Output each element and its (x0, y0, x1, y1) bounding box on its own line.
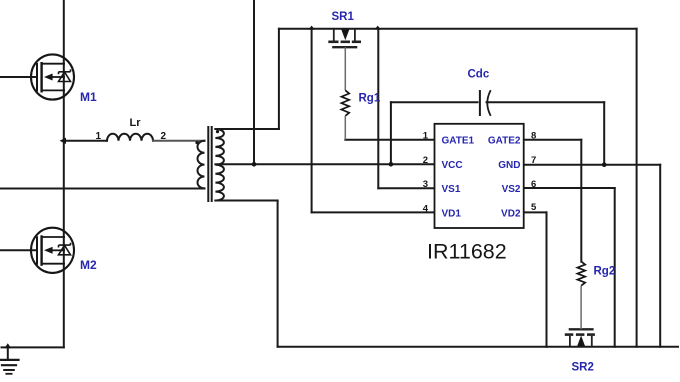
svg-text:GND: GND (498, 160, 520, 171)
svg-text:Lr: Lr (130, 117, 142, 129)
svg-text:Rg2: Rg2 (594, 266, 616, 278)
svg-text:8: 8 (531, 131, 536, 142)
svg-text:VS1: VS1 (442, 184, 461, 195)
svg-text:GATE2: GATE2 (488, 136, 521, 147)
svg-text:Rg1: Rg1 (359, 93, 381, 105)
svg-text:IR11682: IR11682 (427, 240, 507, 264)
svg-text:6: 6 (531, 179, 536, 190)
svg-text:VD1: VD1 (442, 208, 462, 219)
svg-text:1: 1 (423, 131, 429, 142)
svg-text:5: 5 (531, 202, 537, 213)
svg-text:VS2: VS2 (502, 184, 521, 195)
svg-text:M1: M1 (80, 90, 97, 104)
svg-text:2: 2 (161, 131, 167, 142)
svg-text:3: 3 (423, 179, 428, 190)
svg-text:M2: M2 (80, 258, 97, 272)
svg-text:VCC: VCC (442, 160, 463, 171)
svg-text:4: 4 (423, 203, 429, 214)
svg-text:2: 2 (423, 155, 428, 166)
svg-text:GATE1: GATE1 (442, 136, 475, 147)
svg-text:Cdc: Cdc (468, 69, 490, 81)
svg-text:7: 7 (531, 155, 536, 166)
svg-text:SR1: SR1 (332, 11, 355, 23)
svg-text:VD2: VD2 (501, 208, 521, 219)
svg-text:1: 1 (96, 131, 102, 142)
svg-text:SR2: SR2 (572, 362, 594, 374)
